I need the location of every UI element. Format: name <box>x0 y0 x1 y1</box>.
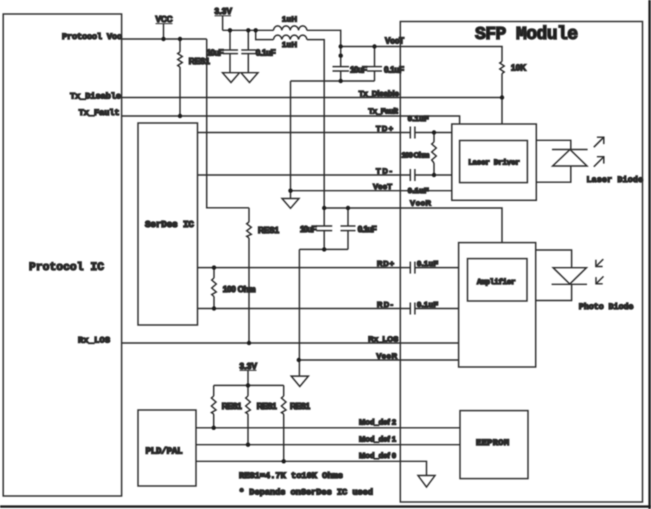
wire RD+ <box>198 267 411 269</box>
SerDes IC box U1 <box>138 123 198 325</box>
svg-text:SFP Module: SFP Module <box>475 25 578 45</box>
svg-text:10uF: 10uF <box>207 49 224 58</box>
svg-text:VccT: VccT <box>385 37 404 46</box>
svg-text:Laser Driver: Laser Driver <box>468 160 520 168</box>
wire Mod_def 0 <box>196 461 427 475</box>
wire L2 to VccR drop <box>307 40 324 208</box>
resistor RES1 (Mod_def 2) <box>211 385 242 427</box>
svg-text:0.1uF: 0.1uF <box>358 225 377 234</box>
wire VccT <box>341 46 503 48</box>
svg-text:1uH: 1uH <box>282 15 297 24</box>
EEPROM box <box>460 411 528 479</box>
svg-text:RES1: RES1 <box>290 402 310 411</box>
Protocol IC box <box>3 14 121 496</box>
svg-text:RES1: RES1 <box>189 57 210 66</box>
resistor RES1 (Mod_def 1) <box>246 385 277 444</box>
svg-text:Rx_LOS: Rx_LOS <box>368 334 398 343</box>
laser diode emission arrows <box>594 137 604 167</box>
svg-text:VeeR: VeeR <box>376 351 397 360</box>
ground (under 10uF) <box>223 73 240 83</box>
svg-text:Tx_Disable: Tx_Disable <box>359 89 399 98</box>
wire Rx_LOS <box>122 342 459 344</box>
wire Tx_Disable <box>122 97 502 99</box>
capacitor 0.1uF (TD- series) <box>408 169 429 195</box>
svg-text:RD-: RD- <box>377 300 393 309</box>
wire VccR <box>324 208 502 243</box>
svg-text:Amplifier: Amplifier <box>477 279 516 287</box>
svg-text:TD-: TD- <box>376 166 392 175</box>
svg-text:10uF: 10uF <box>300 225 317 234</box>
svg-text:3.3V: 3.3V <box>240 362 258 371</box>
wire RES network top rail <box>214 384 284 386</box>
capacitor 10uF (VccR) <box>300 208 332 249</box>
svg-text:100 Ohm: 100 Ohm <box>223 285 256 294</box>
wire VeeT ground drop <box>290 81 292 199</box>
wire TD+ <box>198 132 411 134</box>
svg-text:RES1: RES1 <box>257 402 277 411</box>
svg-text:0.1uF: 0.1uF <box>417 300 438 309</box>
wire branch to L2 <box>256 30 274 39</box>
svg-text:VCC: VCC <box>156 15 173 24</box>
resistor RES1 Tx_Fault pull-up <box>178 39 211 116</box>
svg-text:10K: 10K <box>511 64 526 73</box>
resistor RES1 (Mod_def 0) <box>281 385 310 461</box>
svg-text:SerDes IC: SerDes IC <box>145 219 194 230</box>
ground (VeeR) <box>291 376 308 386</box>
svg-text:RD+: RD+ <box>377 259 395 268</box>
resistor 10K pull-up (Tx_Disable) <box>500 47 526 125</box>
svg-text:0.1uF: 0.1uF <box>417 259 438 268</box>
PLD/PAL box <box>138 410 196 486</box>
capacitor 10uF (VccT) <box>333 47 368 82</box>
svg-text:RES1: RES1 <box>222 402 242 411</box>
wire Tx_Fault <box>122 116 460 124</box>
ground (under 0.1uF) <box>241 73 258 83</box>
svg-text:3.3V: 3.3V <box>215 7 233 16</box>
svg-text:0.1uF: 0.1uF <box>256 49 276 58</box>
svg-text:Mod_def 2: Mod_def 2 <box>359 417 396 426</box>
wire VccT caps bottom <box>291 80 375 82</box>
wire VeeR <box>299 359 459 361</box>
svg-text:Laser Diode: Laser Diode <box>587 175 644 185</box>
svg-text:RES1: RES1 <box>258 226 279 235</box>
wire Protocol Vcc drop to Rx_LOS pull-up <box>207 39 249 208</box>
photo diode D2 <box>536 250 587 301</box>
svg-text:100 Ohm: 100 Ohm <box>402 150 430 159</box>
svg-text:Mod_def 0: Mod_def 0 <box>359 451 396 460</box>
svg-text:* Depands onSerDes IC used: * Depands onSerDes IC used <box>239 487 373 497</box>
svg-text:VccR: VccR <box>410 198 432 207</box>
wire Mod_def 2 <box>196 427 460 429</box>
svg-text:PLD/PAL: PLD/PAL <box>146 447 183 457</box>
resistor 100 Ohm (RD pair) <box>212 268 256 309</box>
wire Mod_def 1 <box>196 444 460 446</box>
svg-text:TD+: TD+ <box>376 124 394 133</box>
resistor 100 Ohm (TD pair) <box>402 133 437 176</box>
resistor RES1 Rx_LOS pull-up <box>247 208 280 343</box>
svg-text:EEPROM: EEPROM <box>476 438 509 448</box>
ground (Mod_def 0) <box>418 476 435 488</box>
svg-text:Protocol IC: Protocol IC <box>29 262 104 274</box>
svg-text:Tx_Fault: Tx_Fault <box>368 106 398 115</box>
Amplifier box <box>459 243 536 367</box>
wire RD- <box>198 308 411 310</box>
svg-text:Photo Diode: Photo Diode <box>579 302 634 312</box>
wire TD- <box>198 174 411 176</box>
wire VeeT <box>291 190 452 192</box>
svg-text:0.1uF: 0.1uF <box>384 66 404 75</box>
Laser Driver box <box>452 124 537 200</box>
capacitor 10uF (3.3V rail) <box>207 30 239 72</box>
ground (VeeT) <box>282 199 299 209</box>
svg-text:VeeT: VeeT <box>373 182 392 191</box>
capacitor 0.1uF (RD- series) <box>410 300 438 315</box>
capacitor 0.1uF (VccR) <box>341 208 377 249</box>
SFP Module box <box>400 22 642 503</box>
svg-text:RES1=4.7K to10K Ohms: RES1=4.7K to10K Ohms <box>239 471 343 481</box>
3.3V power symbol top <box>215 7 233 30</box>
wire VeeR ground drop <box>298 249 300 376</box>
svg-text:1uH: 1uH <box>282 40 297 49</box>
capacitor 0.1uF (3.3V rail) <box>241 30 275 72</box>
svg-text:Rx_LOS: Rx_LOS <box>78 336 110 346</box>
VCC power symbol <box>156 15 173 39</box>
wire 3.3V rail <box>223 29 274 31</box>
inductor L2 1uH (VccR feed) <box>274 35 307 49</box>
svg-text:10uF: 10uF <box>350 66 367 75</box>
inductor L1 1uH (VccT feed) <box>274 15 307 31</box>
svg-text:Mod_def 1: Mod_def 1 <box>359 434 396 443</box>
svg-text:Protocol Vcc: Protocol Vcc <box>62 32 122 42</box>
svg-text:0.1uF: 0.1uF <box>408 114 429 123</box>
photo diode incoming light arrows <box>596 259 604 284</box>
svg-text:Tx_Disable: Tx_Disable <box>70 92 121 102</box>
3.3V power symbol bottom <box>240 362 258 386</box>
capacitor 0.1uF (VccT) <box>367 47 404 82</box>
wire VccR caps bottom <box>299 248 348 250</box>
wire Protocol Vcc <box>122 38 207 40</box>
laser diode D1 <box>536 140 587 182</box>
capacitor 0.1uF (RD+ series) <box>410 259 438 274</box>
svg-text:Tx_Fault: Tx_Fault <box>79 108 120 118</box>
wire L1 to VccT corner <box>307 30 341 46</box>
capacitor 0.1uF (TD+ series) <box>408 114 429 139</box>
